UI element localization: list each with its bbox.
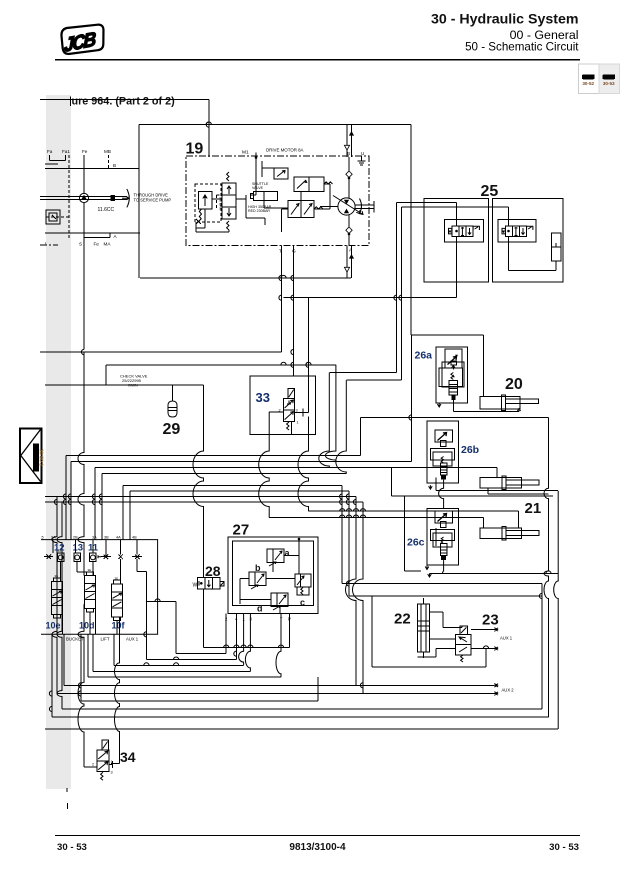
svg-text:3: 3 (111, 771, 113, 775)
wire trunk 25 left step (329, 372, 396, 374)
wire 4A drop (120, 559, 122, 584)
svg-text:26b: 26b (461, 444, 479, 456)
wire 23 lower return (436, 648, 456, 650)
svg-text:26c: 26c (407, 537, 425, 549)
wire bundle2 drop to aux line a (52, 497, 57, 694)
wire pump S line long vertical (83, 203, 85, 350)
svg-text:19: 19 (186, 141, 204, 158)
svg-text:10f: 10f (112, 621, 126, 631)
svg-text:b: b (255, 563, 261, 573)
wire pilot line 1 riser to lift service (360, 418, 362, 456)
svg-text:23: 23 (482, 612, 499, 629)
svg-text:B: B (113, 163, 116, 168)
through-drive arc symbol (127, 189, 130, 207)
wire bundle2 right drop a (341, 486, 343, 584)
svg-text:10e: 10e (46, 621, 61, 631)
wire bundle2 right drop d (353, 502, 363, 694)
svg-text:29: 29 (163, 421, 181, 438)
anti-cavitation check X a (47, 555, 52, 560)
wire box 22 top line 2 (349, 595, 542, 597)
wire 19 internal right link (324, 183, 330, 185)
flushing valve pilot lines (217, 194, 223, 196)
wire port T return (281, 246, 283, 353)
wire right trunk A (541, 584, 543, 710)
valve 26c mid box outer (430, 530, 454, 541)
wire 27 internal a-c link (284, 555, 299, 557)
cylinder 21b body (480, 528, 522, 539)
valve 23 body (456, 635, 471, 655)
relief valve 19a spring (199, 209, 201, 219)
wire 27 internal d link (240, 599, 271, 601)
svg-text:Fe: Fe (94, 242, 100, 247)
left margin section tab (20, 429, 44, 484)
motor variable displacement arrow (333, 196, 363, 215)
valve 34 spring (101, 772, 103, 780)
wire drop to valve 28 (193, 385, 204, 578)
wire 19 internal M1 drop (255, 177, 257, 195)
wire trunk 25 right vertical (401, 207, 403, 380)
solenoid 19e spring (324, 182, 333, 184)
wire top feed to node B/U (139, 124, 411, 126)
wire 19 internal left drop (204, 209, 206, 228)
wire 27 internal a drop (272, 563, 274, 573)
header rule (55, 59, 580, 61)
wire 27 port T drop (276, 614, 281, 678)
wire 28 to port P of 27 (204, 647, 290, 649)
pump drain dashed link (46, 216, 69, 218)
wire check valve 29 stub (172, 385, 174, 401)
svg-text:LIFT: LIFT (101, 637, 110, 642)
wire staircase line 5 (88, 676, 281, 678)
pump case dash-dot vertical (68, 155, 70, 239)
wire 28 lower drop (203, 589, 205, 647)
anti-cavitation check X c (119, 555, 123, 560)
valve 26c pilot box (435, 511, 453, 523)
hose burst valve 26b enclosure (427, 421, 459, 483)
svg-text:30 - 53: 30 - 53 (57, 842, 87, 853)
wire feed to valve 25a (397, 201, 457, 203)
wire motor column (348, 157, 350, 198)
wire spool 10f tails (116, 621, 118, 635)
block 19 boundary dash-dot box (186, 156, 369, 246)
wire pilot line 3 drop to cylinder (496, 468, 498, 478)
motor output shaft (355, 204, 374, 206)
solenoid valve 19d (274, 168, 288, 179)
svg-text:4B: 4B (132, 536, 137, 540)
wire box 22 top line 1 (342, 583, 542, 585)
valve 26c seat block (441, 556, 446, 560)
valve 23 spring (461, 655, 463, 662)
svg-text:25: 25 (481, 183, 499, 200)
gauge nested squares (46, 210, 60, 224)
svg-text:MA: MA (104, 242, 112, 247)
svg-text:VALVE: VALVE (252, 186, 264, 190)
hydraulic motor 19 symbol (338, 198, 355, 215)
wire valve 25a return drop (456, 236, 458, 297)
valve 26c pilot square (440, 522, 446, 528)
solenoid 25b pilot flag (527, 226, 533, 230)
svg-text:30-52: 30-52 (582, 81, 594, 86)
svg-text:3B: 3B (104, 536, 109, 540)
block 33 enclosure (250, 376, 315, 434)
solenoid 25b actuator (502, 228, 505, 234)
page nav tab left 30-52 (579, 64, 600, 94)
wire right trunk B (544, 418, 549, 718)
wire T return to left edge (40, 351, 282, 353)
svg-text:30 - Hydraulic System: 30 - Hydraulic System (431, 12, 578, 28)
solenoid valve 33 body (283, 398, 294, 421)
solenoid valve 25a body (452, 226, 473, 236)
pump suction vertical S line (83, 155, 85, 194)
pump port stubs (49, 155, 51, 161)
svg-text:1: 1 (297, 421, 299, 425)
accumulator 22 body (418, 604, 430, 652)
valve 26a mid box outer (442, 362, 464, 387)
wire 4B jog (136, 559, 138, 572)
wire 27 internal b-c link (240, 578, 249, 580)
block 25 left enclosure (424, 199, 489, 282)
pump bottom bracket (84, 237, 110, 239)
wire long return line 2 (62, 708, 542, 710)
svg-text:d: d (257, 604, 263, 614)
svg-text:4A: 4A (116, 536, 121, 540)
svg-text:3E: 3E (88, 568, 92, 572)
wire valve 25b to capsule (508, 236, 510, 270)
wire gallery upper drop (325, 365, 336, 462)
svg-text:30-50-2: 30-50-2 (37, 449, 43, 466)
wire 19 internal top link (261, 168, 263, 177)
wire 34 feed risers (115, 634, 120, 763)
svg-text:11.6CC: 11.6CC (98, 207, 115, 213)
hose burst valve 26a enclosure (436, 347, 468, 403)
wire 27 port 3 drop (245, 614, 250, 672)
wire branch 26b gallery (390, 468, 392, 497)
wire bank pass-through pump line (78, 352, 84, 576)
svg-text:W: W (193, 583, 198, 589)
svg-text:3E: 3E (115, 576, 119, 580)
wire long return line 1 (81, 700, 318, 702)
solenoid valve 27d (271, 593, 288, 607)
wire 19 internal relief to spool (212, 198, 222, 200)
shuttle valve body (254, 192, 278, 201)
wire service bundle line 1 (123, 485, 342, 487)
svg-text:AUX 1: AUX 1 (500, 636, 513, 641)
accumulator 22 piston rod (420, 604, 422, 652)
valve 26b pilot square (440, 441, 446, 447)
wire service bundle line 3 (45, 496, 356, 498)
pump MB dashed stub (108, 155, 110, 169)
svg-text:A: A (114, 234, 118, 239)
wire service bundle line 2 (130, 490, 349, 492)
wire aux2 line 2 (57, 693, 494, 695)
check valve 13 body (74, 553, 81, 561)
wire 27 internal d drop (279, 607, 281, 614)
wire long return line 4 (45, 728, 558, 730)
wire bundle2 left risers (122, 486, 124, 540)
svg-text:13: 13 (73, 543, 84, 554)
wire 26b drain arrow (429, 485, 433, 489)
svg-text:1: 1 (45, 242, 48, 247)
valve 26b seat block (441, 475, 446, 479)
svg-text:S: S (79, 242, 82, 247)
block 25 right enclosure (493, 199, 564, 282)
wire 26c outlet (443, 560, 444, 573)
solenoid valve 25b outer (498, 220, 536, 242)
wire lift service line (361, 417, 549, 419)
wire pump line lower (78, 604, 84, 767)
wire 26a frame left vertical (411, 335, 413, 461)
check valve 12 body (57, 553, 64, 561)
solenoid 25a actuator (449, 228, 452, 234)
figure caption box top line (40, 99, 209, 101)
pump drive shaft double line (40, 196, 127, 198)
wire right trunk down to block 26a (410, 125, 412, 336)
wire 27 port 4 drop (235, 614, 237, 660)
svg-text:M1: M1 (242, 150, 249, 156)
wire gallery to 26c (391, 495, 553, 497)
svg-text:.5: .5 (41, 536, 44, 540)
solenoid 25a pilot flag (473, 226, 479, 230)
wire check 13 drop (76, 562, 78, 572)
wire staircase line 2 (146, 659, 236, 661)
flushing valve springs (227, 172, 229, 181)
gray page-edge band (46, 95, 71, 789)
valve 34 body (97, 750, 109, 771)
anti-cavitation check X b (104, 555, 109, 560)
valve 26a pilot box (445, 349, 462, 368)
cylinder 20 body (480, 397, 520, 410)
check valve 11 body (90, 553, 97, 561)
wire port A stubs with flow arrows (346, 246, 348, 279)
block 27 inner liner (233, 541, 314, 606)
wire spool 10e tails (56, 618, 58, 634)
wire 19 right branch dots (320, 206, 338, 208)
svg-text:30-53: 30-53 (603, 81, 615, 86)
svg-text:26a: 26a (415, 350, 433, 362)
wire bundle2 right drop b (348, 491, 350, 596)
svg-text:25/222995: 25/222995 (122, 378, 142, 383)
motor torque arc arrow (356, 199, 361, 214)
svg-text:27: 27 (233, 522, 250, 539)
valve bank enclosure (41, 540, 158, 635)
wire 33 left port (269, 411, 283, 413)
wire bank right link a (175, 602, 177, 654)
wire T/G gallery to valve 25a (284, 297, 457, 299)
svg-text:TO SERVICE PUMP: TO SERVICE PUMP (134, 198, 172, 203)
brake valve spring (314, 207, 323, 209)
svg-text:2A: 2A (51, 536, 56, 540)
wire check 12 drop (60, 562, 62, 582)
hose burst valve 26c enclosure (427, 508, 459, 565)
wire spool 10d tails (89, 612, 91, 634)
cylinder 20 rod (506, 399, 539, 404)
valve 28 end box Z (220, 582, 224, 587)
wire gallery upper (106, 364, 336, 366)
JCB logo (59, 21, 107, 57)
solenoid valve 27a (267, 549, 284, 563)
pump symbol circle (79, 193, 88, 202)
pump bottom dash-dot stub (40, 244, 58, 246)
wire trunk 25 right step drop (336, 380, 346, 473)
node M1 junction dot (255, 156, 258, 159)
wire staircase line 1 (176, 653, 226, 655)
wire trunk 25 left step drop (319, 373, 330, 468)
cylinder 21a rod (506, 480, 539, 485)
svg-text:2B: 2B (73, 536, 78, 540)
wire service bundle line 4 (45, 501, 363, 503)
wire 26c frame (403, 496, 405, 571)
solenoid valve 27b (249, 572, 266, 586)
valve 26a check cartridge (451, 373, 453, 380)
wire 26c service line (430, 573, 559, 575)
solenoid valve 25b body (505, 226, 526, 236)
wire aux2 line 1 (64, 684, 494, 686)
tank symbol below U (361, 157, 363, 162)
svg-text:AUX 1: AUX 1 (126, 637, 139, 642)
cylinder 21a body (480, 478, 522, 489)
wire 26a frame right drop to cylinder 20 (482, 335, 484, 396)
wire 26a drain arrow (437, 403, 441, 407)
block 27 enclosure (228, 537, 318, 614)
wire valve 23 ports (471, 629, 494, 631)
spool valve 10f (112, 584, 123, 617)
wire B riser (138, 125, 140, 278)
svg-text:3A: 3A (92, 536, 97, 540)
wire 27 port 2 drop (225, 614, 227, 654)
wire 26a outlet (452, 400, 454, 412)
wire 33 right feed from G gallery (308, 298, 310, 413)
svg-text:10d: 10d (79, 621, 95, 631)
wire cylinder 21b side feed (435, 528, 437, 546)
wire bundle2 right drop c (346, 497, 357, 686)
check valve 29 symbol (168, 401, 177, 417)
wire port A horizontal (45, 232, 140, 234)
valve 26c check cartridge (441, 537, 443, 544)
svg-text:DRIVE MOTOR 8A: DRIVE MOTOR 8A (266, 148, 304, 153)
valve 26b mid box inner (433, 452, 452, 466)
wire pilot bundle line 2 (71, 461, 412, 463)
svg-text:Fa: Fa (47, 149, 53, 154)
wire 34 drain marks (66, 788, 68, 792)
wire 26b outlet jog (439, 480, 444, 509)
svg-text:9813/3100-4: 9813/3100-4 (289, 842, 346, 853)
valve 26a pilot square (451, 361, 457, 365)
relief valve pilot dashed box (195, 184, 221, 222)
spool valve 10d (85, 576, 96, 609)
svg-text:U: U (361, 151, 364, 156)
wire gallery lower (45, 384, 204, 386)
solenoid valve 27c (295, 574, 311, 587)
wire 33 bottom stub (291, 421, 293, 434)
wire 27 port 1 drop (239, 614, 244, 666)
box 22 frame bottom (485, 649, 487, 667)
wire 33 right drop to cylinder 21b (298, 417, 309, 512)
wire 33 left drop to cylinder 21b (259, 412, 270, 518)
wire long return line 3 (52, 716, 549, 718)
wire 22 to valve 23 (430, 638, 456, 640)
wire staircase line 3 (114, 664, 244, 666)
page nav tab right 30-53 (599, 64, 620, 94)
valve 26c mid box inner (433, 533, 452, 547)
svg-text:33: 33 (256, 390, 270, 405)
wire pilot bundle line 3 (95, 467, 497, 469)
valve 23 pilot square (460, 626, 467, 635)
valve 26b mid box outer (430, 449, 454, 460)
wire port G drop to block 33 (293, 246, 295, 377)
wire bundle2 drop to aux line b (57, 502, 62, 709)
wire figure box right side down to block 19 (208, 100, 210, 157)
solenoid valve 25a outer (445, 220, 484, 242)
wire cylinder 21a lines (436, 490, 558, 492)
svg-text:50 - Schematic Circuit: 50 - Schematic Circuit (465, 41, 579, 54)
wire pilot bundle line 4 (102, 473, 346, 475)
wire check 11 drop (92, 562, 94, 576)
svg-text:AUX 2: AUX 2 (502, 688, 515, 693)
wire 19 internal brake riser (300, 192, 302, 201)
wire 19 internal to motor (282, 208, 289, 210)
svg-text:Fa1: Fa1 (62, 149, 70, 154)
svg-text:3E: 3E (55, 574, 59, 578)
pump port block solid (111, 195, 116, 201)
svg-text:c: c (300, 598, 305, 608)
wire bank port drops (52, 540, 54, 554)
wire trunk 25 left vertical (396, 202, 398, 372)
svg-text:a: a (285, 548, 291, 558)
wire bundle1 left risers (65, 456, 67, 540)
svg-text:A: A (349, 248, 353, 253)
wire 22 outlet top (430, 611, 444, 613)
check diamonds on motor line (346, 171, 352, 177)
svg-text:20: 20 (505, 376, 523, 393)
flushing spool valve 19b (222, 183, 236, 219)
restrictor capsule in block 25 (552, 233, 562, 261)
node dot feed 27 (298, 538, 301, 541)
footer rule (55, 835, 580, 837)
valve 33 spring (287, 422, 289, 430)
svg-text:Fe: Fe (82, 149, 88, 154)
wire 26a top frame (411, 334, 483, 336)
wire staircase line 4 (93, 670, 250, 672)
svg-text:MB: MB (104, 149, 111, 154)
wire feed to valve 25b (402, 206, 509, 208)
cylinder 21b rod (506, 531, 539, 536)
box 22 frame left (371, 596, 373, 667)
valve 34 side bracket (109, 764, 113, 766)
wire 26c drain arrow (425, 566, 429, 570)
svg-text:22: 22 (394, 611, 411, 628)
wire valve 23 lower port (471, 648, 494, 650)
valve 26a seat block (451, 396, 455, 401)
svg-text:30 - 53: 30 - 53 (549, 842, 579, 853)
wire pilot bundle line 1 (66, 455, 361, 457)
wire 19 internal shuttle drop (263, 201, 265, 209)
spool valve 10e (52, 582, 63, 615)
svg-text:28: 28 (205, 563, 221, 579)
valve 26b check cartridge (441, 457, 443, 464)
svg-text:2: 2 (92, 763, 94, 767)
svg-text:12: 12 (58, 549, 62, 553)
wire port B/U risers with flow arrows (346, 125, 348, 157)
brake valve 19c (288, 201, 314, 218)
wire gallery link (105, 365, 107, 385)
wire right trunk C (554, 491, 559, 729)
solenoid valve 33 pilot cell (288, 388, 295, 398)
wire trunk 25 right step (346, 379, 401, 381)
svg-text:34: 34 (120, 749, 136, 765)
wire 27 internal feed (298, 539, 300, 574)
anti-cavitation check X d (135, 555, 140, 560)
wire A to block 19 (140, 277, 351, 279)
